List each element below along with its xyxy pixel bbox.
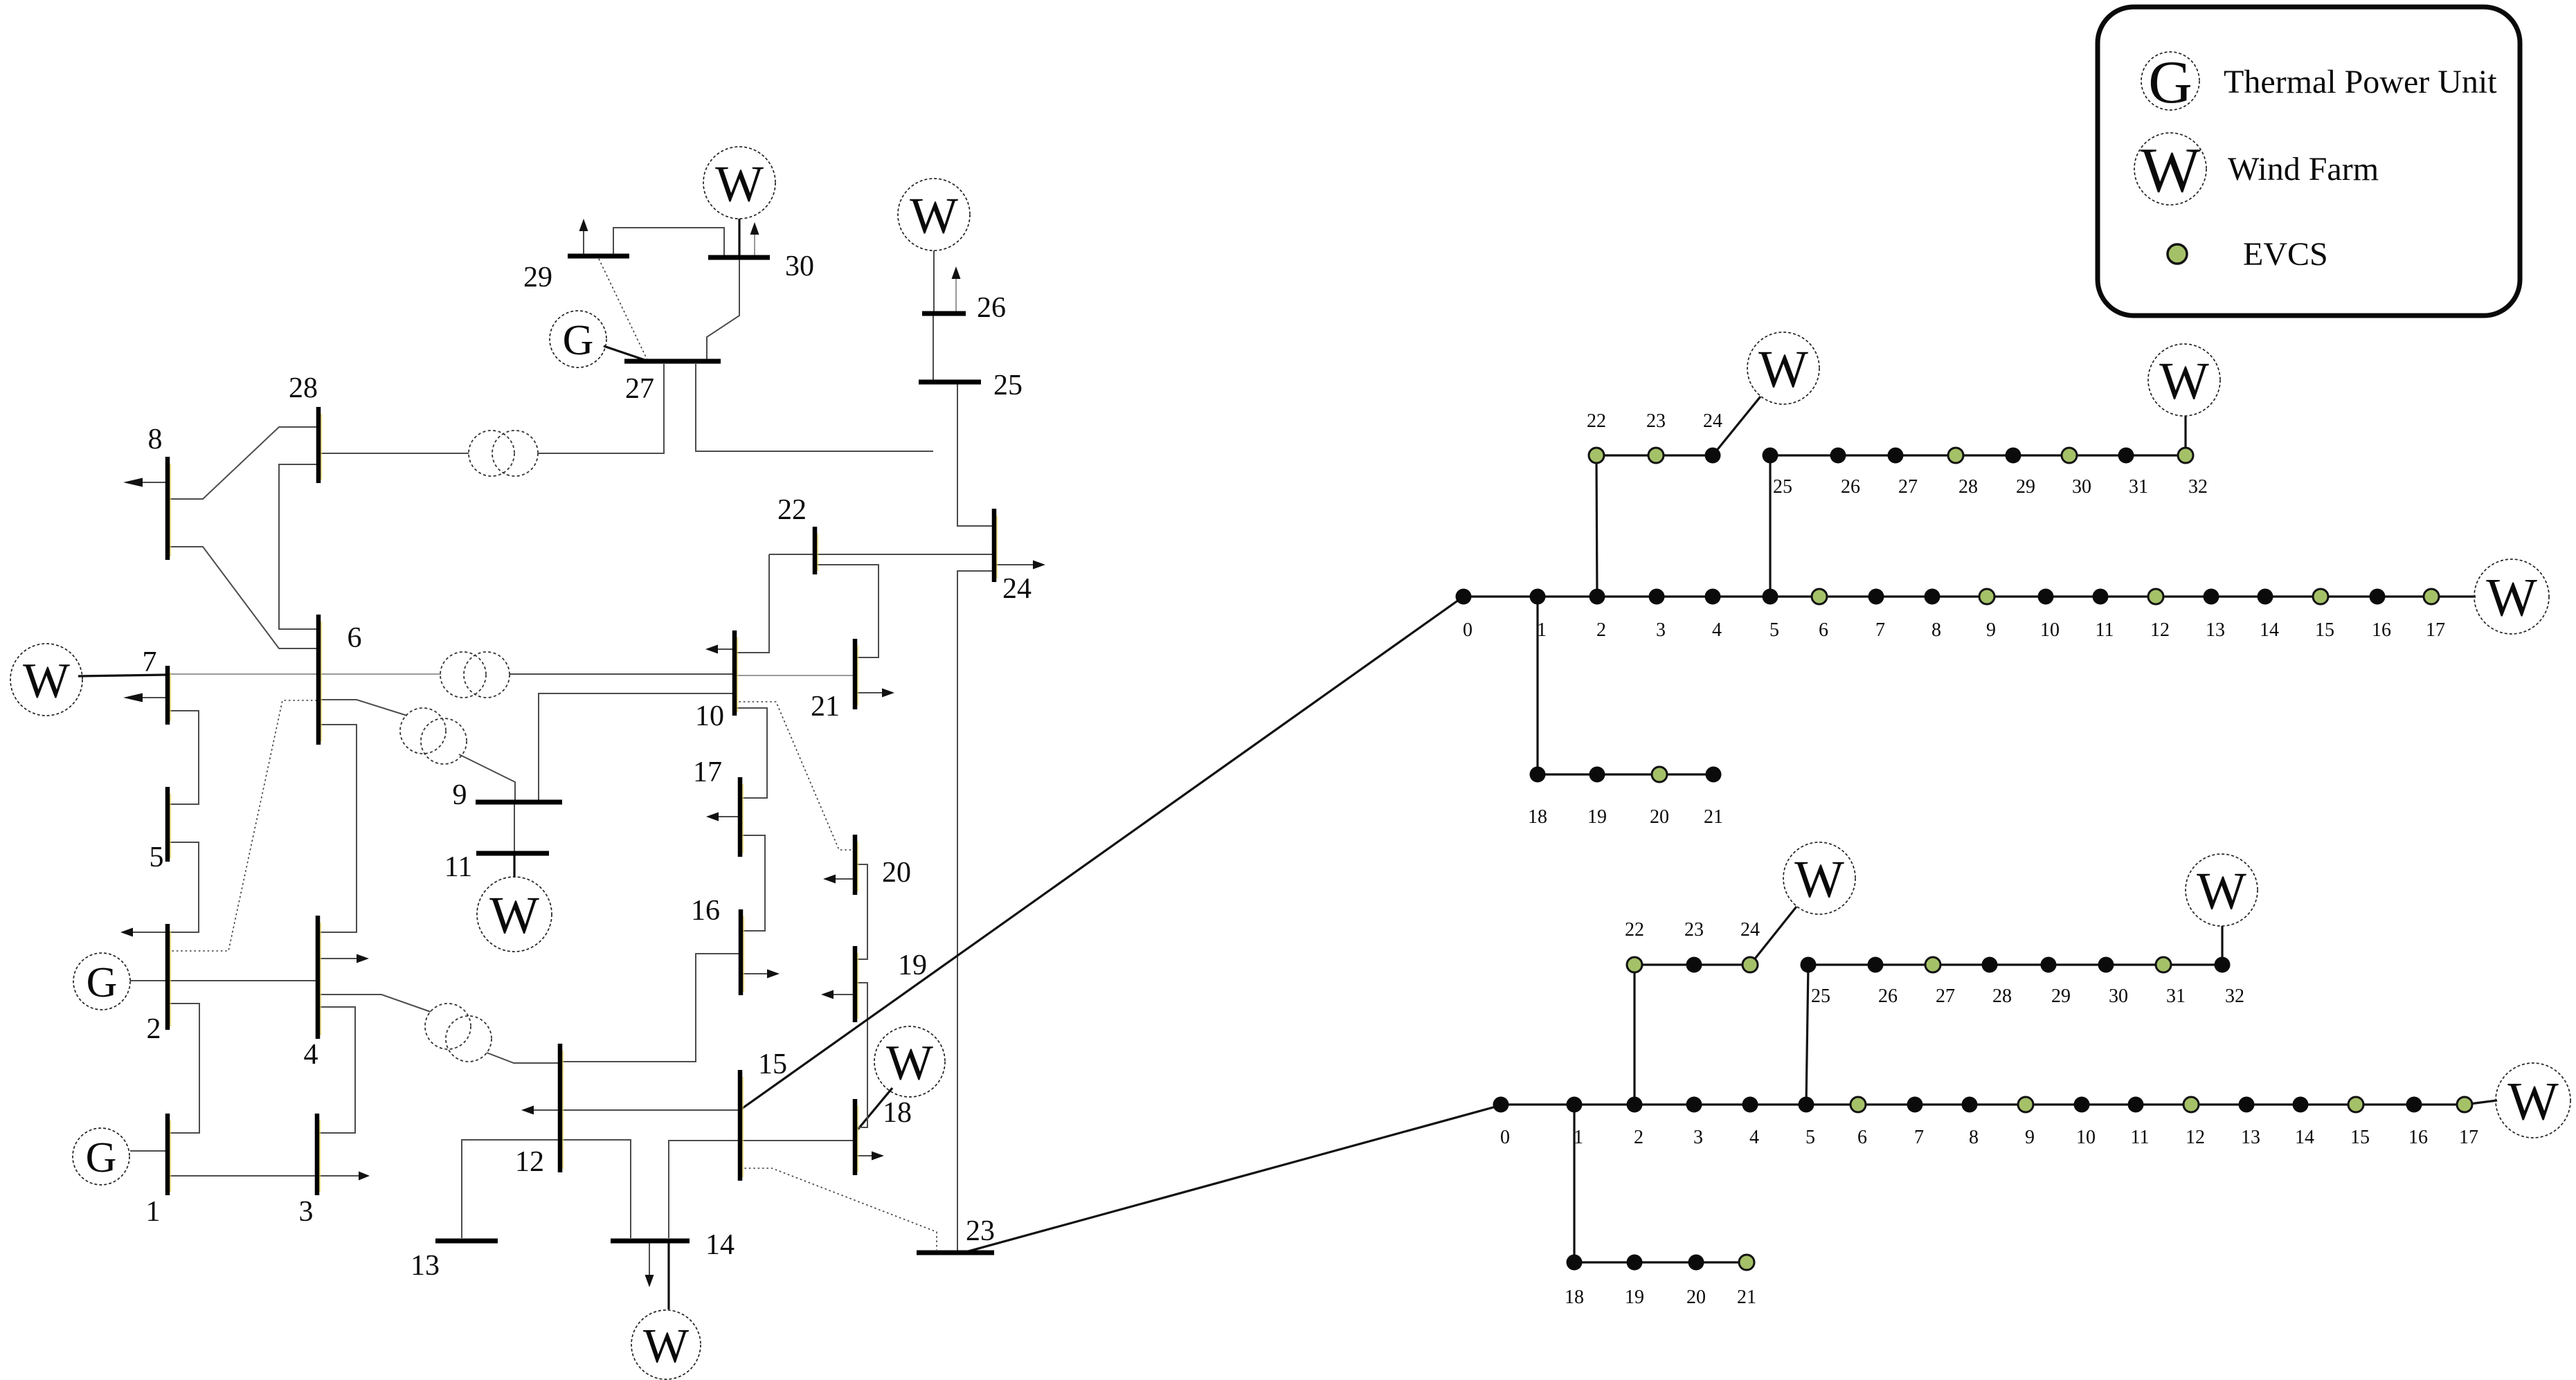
- wire 6-28: [279, 464, 318, 629]
- lower 33-node feeder: wind farm W at end of main line: [2496, 1063, 2570, 1138]
- svg-text:29: 29: [523, 262, 552, 293]
- svg-text:4: 4: [1712, 619, 1722, 641]
- svg-text:12: 12: [2150, 619, 2170, 641]
- wire 27-29: [599, 259, 647, 360]
- svg-text:2: 2: [147, 1013, 161, 1045]
- wire 10-21: [735, 675, 855, 676]
- upper 33-node feeder: node 27: [1888, 448, 1904, 464]
- wire transformer T2 to 9: [459, 754, 515, 800]
- bus 15: [740, 1070, 743, 1181]
- upper 33-node feeder: node 31: [2118, 448, 2134, 464]
- svg-text:32: 32: [2225, 986, 2244, 1007]
- bus 16: [741, 909, 744, 995]
- svg-text:14: 14: [2260, 619, 2279, 641]
- lower 33-node feeder: node 5: [1799, 1097, 1814, 1113]
- lower 33-node feeder: wire node 5 to node 25: [1806, 965, 1808, 1105]
- upper 33-node feeder: node 6 (EVCS): [1812, 589, 1827, 604]
- lower 33-node feeder: node 8: [1962, 1097, 1978, 1113]
- wire 14-15: [669, 1141, 740, 1238]
- wire 12-16: [560, 954, 741, 1062]
- bus 13: [435, 1239, 498, 1244]
- lower 33-node feeder: node 24 (EVCS): [1742, 957, 1758, 972]
- svg-text:16: 16: [2372, 619, 2391, 641]
- wire 6-7 and 6 to transformer: [168, 673, 441, 675]
- svg-text:4: 4: [1749, 1127, 1759, 1148]
- svg-text:3: 3: [1693, 1127, 1703, 1148]
- wind farm W at bus 14: [631, 1310, 701, 1379]
- transformer 6-9: [400, 708, 467, 764]
- svg-text:21: 21: [1737, 1287, 1756, 1308]
- svg-text:W: W: [2197, 862, 2246, 920]
- bus 18: [855, 1099, 858, 1175]
- svg-text:14: 14: [2295, 1127, 2314, 1148]
- svg-text:W: W: [1758, 341, 1808, 399]
- upper 33-node feeder: node 28 (EVCS): [1948, 448, 1963, 463]
- bus 2: [168, 924, 170, 1030]
- svg-text:20: 20: [882, 857, 911, 889]
- bus 25: [919, 380, 981, 385]
- wire 29-30: [613, 228, 724, 257]
- svg-text:G: G: [2148, 49, 2192, 116]
- lower 33-node feeder: wire node 2 to node 22: [1633, 965, 1635, 1105]
- svg-text:6: 6: [1857, 1127, 1867, 1148]
- lower 33-node feeder: node 16: [2406, 1097, 2422, 1113]
- upper 33-node feeder: wire node 1 to node 18: [1536, 597, 1538, 774]
- load arrow bus 2: [120, 928, 168, 937]
- upper 33-node feeder: node 1: [1530, 589, 1546, 605]
- wind farm W at bus 26: [898, 179, 970, 251]
- upper 33-node feeder: branch line 22-24: [1596, 454, 1713, 456]
- upper 33-node feeder: wire node 5 to node 25: [1769, 455, 1771, 597]
- wire 25-27: [696, 364, 933, 451]
- lower 33-node feeder: node 23: [1686, 957, 1702, 973]
- bus 5: [168, 787, 170, 862]
- wire W to bus 11: [513, 853, 515, 878]
- svg-text:30: 30: [785, 251, 814, 282]
- svg-text:23: 23: [1684, 919, 1704, 941]
- lower 33-node feeder: node 1: [1567, 1097, 1583, 1113]
- svg-text:27: 27: [625, 373, 654, 405]
- svg-text:28: 28: [1992, 986, 2012, 1007]
- bus 1: [168, 1114, 170, 1195]
- wire 22-24: [769, 554, 994, 555]
- transformer 28-27: [469, 430, 538, 476]
- svg-text:13: 13: [2241, 1127, 2260, 1148]
- upper 33-node feeder: node 22 (EVCS): [1589, 448, 1604, 463]
- wire G to bus 2 and wire 2-4: [130, 980, 318, 981]
- load arrow bus 18: [855, 1152, 884, 1161]
- upper 33-node feeder: wire node 17 to wind farm: [2431, 595, 2476, 597]
- svg-text:11: 11: [2131, 1127, 2150, 1148]
- bus 10: [735, 630, 737, 716]
- lower 33-node feeder: branch line 25-32: [1808, 963, 2222, 965]
- lower 33-node feeder: node 31 (EVCS): [2156, 957, 2171, 972]
- svg-text:13: 13: [2206, 619, 2225, 641]
- upper 33-node feeder: wire node 2 to node 22: [1596, 455, 1597, 597]
- svg-text:W: W: [2486, 568, 2537, 628]
- svg-text:17: 17: [2426, 619, 2445, 641]
- svg-text:9: 9: [2025, 1127, 2035, 1148]
- upper 33-node feeder: node 16: [2370, 589, 2386, 605]
- wire 3-4: [317, 1007, 355, 1133]
- wire 4-6: [318, 725, 357, 932]
- upper 33-node feeder: node 29: [2006, 448, 2021, 464]
- svg-text:29: 29: [2051, 986, 2071, 1007]
- wire 4 to transformer: [318, 995, 431, 1012]
- svg-text:19: 19: [1587, 806, 1607, 828]
- upper 33-node feeder: node 8: [1925, 589, 1940, 605]
- svg-text:G: G: [563, 317, 594, 364]
- svg-text:25: 25: [1773, 476, 1792, 498]
- wire transformer to 27: [538, 364, 664, 453]
- svg-text:20: 20: [1686, 1287, 1706, 1308]
- wire W to bus 14: [667, 1241, 669, 1309]
- load arrow bus 10: [705, 645, 735, 654]
- svg-text:21: 21: [811, 691, 840, 723]
- lower 33-node feeder: main line: [1501, 1103, 2465, 1105]
- svg-text:26: 26: [977, 292, 1006, 324]
- lower 33-node feeder: node 27 (EVCS): [1925, 957, 1940, 972]
- bus 11: [476, 851, 549, 856]
- svg-text:5: 5: [1805, 1127, 1815, 1148]
- svg-text:12: 12: [515, 1146, 544, 1178]
- wire 10-17: [735, 708, 767, 798]
- wire 27-30: [707, 257, 739, 361]
- generator G at bus 27: [550, 311, 606, 367]
- lower 33-node feeder: wire node 24 to wind farm: [1750, 907, 1796, 965]
- lower 33-node feeder: node 19: [1627, 1255, 1643, 1271]
- wire 12-15 with load arrow bus 12: [521, 1106, 740, 1115]
- load arrow bus 16: [741, 970, 780, 979]
- svg-text:9: 9: [1986, 619, 1996, 641]
- wire 16-17: [740, 835, 765, 931]
- bus 26: [922, 311, 966, 316]
- lower 33-node feeder: wire node 32 to wind farm: [2221, 926, 2223, 965]
- wire G to bus 1: [130, 1150, 168, 1152]
- svg-text:2: 2: [1634, 1127, 1643, 1148]
- legend symbol: thermal power unit G: [2141, 49, 2199, 116]
- svg-text:18: 18: [1565, 1287, 1584, 1308]
- lower 33-node feeder: node 14: [2293, 1097, 2309, 1113]
- legend symbol: EVCS node: [2168, 244, 2187, 264]
- upper 33-node feeder: node 25: [1763, 448, 1778, 464]
- svg-text:15: 15: [2315, 619, 2334, 641]
- upper 33-node feeder: wind farm W above node 32: [2148, 344, 2220, 416]
- transformer 6-10: [440, 652, 510, 698]
- legend symbol: wind farm W: [2134, 133, 2206, 206]
- wind farm W at bus 7: [10, 644, 82, 716]
- svg-text:17: 17: [693, 756, 722, 788]
- svg-text:8: 8: [1931, 619, 1941, 641]
- lower 33-node feeder: wind farm W above node 32: [2186, 854, 2258, 926]
- svg-text:31: 31: [2129, 476, 2148, 498]
- transformer 4-12: [425, 1004, 492, 1062]
- lower 33-node feeder: node 17 (EVCS): [2457, 1097, 2472, 1112]
- bus 12: [560, 1044, 563, 1172]
- svg-text:Wind Farm: Wind Farm: [2228, 151, 2379, 188]
- lower 33-node feeder: node 4: [1742, 1097, 1758, 1113]
- bus 3: [317, 1114, 320, 1195]
- svg-text:12: 12: [2186, 1127, 2205, 1148]
- svg-text:1: 1: [1537, 619, 1547, 641]
- wire 9-11: [514, 802, 515, 853]
- lower 33-node feeder: node 15 (EVCS): [2348, 1097, 2363, 1112]
- svg-text:14: 14: [705, 1229, 735, 1261]
- svg-text:G: G: [86, 1134, 117, 1181]
- svg-text:21: 21: [1704, 806, 1723, 828]
- upper 33-node feeder: node 11: [2093, 589, 2109, 605]
- wire 19-20: [855, 864, 867, 959]
- wire 28 to transformer: [318, 453, 469, 454]
- svg-text:W: W: [23, 653, 70, 709]
- upper 33-node feeder: node 7: [1868, 589, 1884, 605]
- bus 24: [994, 509, 997, 582]
- svg-text:11: 11: [2096, 619, 2114, 641]
- bus 17: [740, 777, 743, 857]
- svg-text:22: 22: [1625, 919, 1644, 941]
- svg-text:13: 13: [411, 1250, 440, 1282]
- upper 33-node feeder: wind farm W at end of main line: [2474, 559, 2549, 634]
- wire 8-28: [168, 427, 318, 499]
- svg-text:19: 19: [1625, 1287, 1644, 1308]
- wire 24-25: [957, 382, 992, 526]
- load arrow bus 8: [123, 478, 168, 487]
- wire 6 to transformer T2: [318, 700, 407, 716]
- lower 33-node feeder: node 21 (EVCS): [1739, 1255, 1754, 1270]
- load arrow bus 19: [821, 990, 855, 999]
- svg-text:W: W: [2507, 1071, 2559, 1132]
- load arrow bus 26: [952, 266, 961, 314]
- svg-text:10: 10: [2076, 1127, 2096, 1148]
- svg-text:W: W: [1794, 851, 1844, 909]
- upper 33-node feeder: node 4: [1705, 589, 1721, 605]
- wire 10-20: [735, 702, 855, 850]
- svg-text:26: 26: [1878, 986, 1898, 1007]
- load arrow bus 4: [318, 954, 369, 963]
- svg-text:10: 10: [2040, 619, 2060, 641]
- upper 33-node feeder: node 9 (EVCS): [1979, 589, 1994, 604]
- wire 6-8: [168, 547, 318, 648]
- legend box: [2098, 7, 2520, 316]
- svg-text:7: 7: [143, 646, 157, 678]
- bus 9: [476, 800, 562, 805]
- connector line bus 23 to lower feeder node 0: [958, 1105, 1501, 1254]
- wire 15-18: [740, 1140, 855, 1141]
- lower 33-node feeder: node 25: [1801, 957, 1817, 973]
- lower 33-node feeder: node 26: [1868, 957, 1884, 973]
- bus 21: [855, 639, 858, 709]
- load arrow bus 20: [823, 875, 855, 884]
- svg-text:3: 3: [299, 1196, 314, 1228]
- lower 33-node feeder: node 3: [1686, 1097, 1702, 1113]
- upper 33-node feeder: node 21: [1706, 767, 1722, 783]
- svg-text:7: 7: [1875, 619, 1885, 641]
- svg-text:11: 11: [444, 851, 472, 883]
- upper 33-node feeder: node 10: [2038, 589, 2054, 605]
- upper 33-node feeder: node 0: [1456, 589, 1472, 605]
- wire transformer to 12: [487, 1053, 560, 1063]
- generator G at bus 1: [73, 1128, 129, 1185]
- load arrow bus 14: [645, 1241, 654, 1287]
- wire W to bus 26: [933, 251, 935, 314]
- lower 33-node feeder: sub line 18-21: [1574, 1261, 1747, 1263]
- wire W to bus 30: [738, 219, 740, 257]
- svg-text:29: 29: [2016, 476, 2035, 498]
- wire W to bus 7: [78, 675, 168, 676]
- load arrow bus 24: [994, 561, 1045, 570]
- svg-text:25: 25: [993, 370, 1023, 401]
- lower 33-node feeder: node 6 (EVCS): [1850, 1097, 1866, 1112]
- svg-text:15: 15: [758, 1048, 787, 1080]
- upper 33-node feeder: main line: [1463, 595, 2431, 597]
- upper 33-node feeder: node 14: [2258, 589, 2273, 605]
- svg-text:5: 5: [1769, 619, 1779, 641]
- load arrow bus 29: [579, 219, 588, 256]
- svg-text:1: 1: [1574, 1127, 1583, 1148]
- upper 33-node feeder: wire node 24 to wind farm: [1713, 397, 1760, 455]
- svg-text:16: 16: [2408, 1127, 2428, 1148]
- wire 2-6: [168, 700, 318, 951]
- svg-text:9: 9: [453, 779, 467, 811]
- svg-text:1: 1: [146, 1196, 161, 1228]
- svg-text:W: W: [643, 1320, 689, 1373]
- svg-text:W: W: [886, 1035, 933, 1091]
- svg-text:4: 4: [304, 1039, 318, 1071]
- upper 33-node feeder: node 32 (EVCS): [2178, 448, 2193, 463]
- lower 33-node feeder: node 9 (EVCS): [2018, 1097, 2033, 1112]
- upper 33-node feeder: node 30 (EVCS): [2062, 448, 2077, 463]
- load arrow bus 21: [855, 689, 894, 698]
- wire 18-19: [855, 983, 867, 1127]
- wire 2-5: [168, 842, 199, 932]
- upper 33-node feeder: node 24: [1705, 448, 1721, 464]
- wind farm W at bus 11: [477, 877, 552, 952]
- svg-text:7: 7: [1914, 1127, 1924, 1148]
- bus 20: [855, 835, 858, 895]
- upper 33-node feeder: node 12 (EVCS): [2148, 589, 2163, 604]
- wire 9-10: [539, 693, 735, 800]
- svg-text:25: 25: [1811, 986, 1830, 1007]
- wind farm W at bus 30: [703, 147, 775, 219]
- svg-text:6: 6: [348, 622, 362, 654]
- bus 19: [855, 946, 858, 1022]
- wire 25-26: [933, 314, 934, 382]
- lower 33-node feeder: node 28: [1982, 957, 1998, 973]
- wire 10-22: [735, 554, 769, 653]
- bus 29: [568, 254, 629, 259]
- upper 33-node feeder: wind farm W near node 24: [1747, 332, 1819, 404]
- bus 23: [917, 1251, 994, 1255]
- svg-text:0: 0: [1500, 1127, 1510, 1148]
- svg-text:W: W: [910, 188, 958, 244]
- svg-text:EVCS: EVCS: [2243, 236, 2328, 273]
- wire transformer to 10: [510, 673, 735, 675]
- bus 8: [168, 457, 170, 560]
- upper 33-node feeder: node 19: [1589, 767, 1605, 783]
- svg-text:19: 19: [898, 950, 927, 981]
- lower 33-node feeder: node 0: [1493, 1097, 1509, 1113]
- svg-text:16: 16: [691, 895, 720, 927]
- svg-text:Thermal Power Unit: Thermal Power Unit: [2224, 64, 2497, 100]
- wire 12-13: [462, 1140, 560, 1238]
- svg-text:3: 3: [1656, 619, 1666, 641]
- upper 33-node feeder: node 23 (EVCS): [1648, 448, 1664, 463]
- svg-text:W: W: [489, 887, 539, 945]
- svg-text:23: 23: [966, 1215, 995, 1247]
- svg-text:27: 27: [1898, 476, 1918, 498]
- lower 33-node feeder: node 30: [2098, 957, 2114, 973]
- svg-text:18: 18: [883, 1097, 912, 1129]
- upper 33-node feeder: node 13: [2204, 589, 2219, 605]
- svg-text:5: 5: [150, 842, 164, 873]
- lower 33-node feeder: node 13: [2239, 1097, 2255, 1113]
- lower 33-node feeder: node 12 (EVCS): [2183, 1097, 2199, 1112]
- svg-text:17: 17: [2459, 1127, 2478, 1148]
- bus 14: [611, 1239, 690, 1244]
- wire 1-3 with load arrow bus 3: [168, 1172, 370, 1181]
- lower 33-node feeder: node 10: [2074, 1097, 2090, 1113]
- wire 21-22: [815, 565, 879, 657]
- load arrow bus 7: [123, 693, 168, 702]
- svg-text:W: W: [2159, 352, 2209, 410]
- upper 33-node feeder: node 15 (EVCS): [2313, 589, 2328, 604]
- upper 33-node feeder: node 5: [1763, 589, 1778, 605]
- generator G at bus 2: [73, 953, 130, 1010]
- svg-text:G: G: [87, 959, 118, 1006]
- upper 33-node feeder: branch line 25-32: [1770, 454, 2186, 456]
- svg-text:30: 30: [2109, 986, 2128, 1007]
- bus 27: [624, 359, 721, 364]
- bus 6: [318, 615, 321, 745]
- lower 33-node feeder: node 32: [2215, 957, 2231, 973]
- svg-text:24: 24: [1740, 919, 1760, 941]
- bus 4: [318, 916, 321, 1039]
- lower 33-node feeder: node 11: [2128, 1097, 2144, 1113]
- lower 33-node feeder: wire node 17 to wind farm: [2465, 1100, 2497, 1105]
- lower 33-node feeder: node 7: [1907, 1097, 1923, 1113]
- svg-text:2: 2: [1596, 619, 1606, 641]
- wire 5-7: [168, 711, 199, 804]
- svg-text:24: 24: [1002, 573, 1032, 605]
- lower 33-node feeder: node 29: [2041, 957, 2057, 973]
- svg-text:6: 6: [1819, 619, 1828, 641]
- lower 33-node feeder: node 2: [1627, 1097, 1643, 1113]
- lower 33-node feeder: node 20: [1688, 1255, 1704, 1271]
- svg-text:0: 0: [1463, 619, 1472, 641]
- upper 33-node feeder: sub line 18-21: [1538, 773, 1713, 775]
- wire 15-23: [740, 1168, 937, 1250]
- load arrow bus 30: [750, 222, 759, 257]
- lower 33-node feeder: node 18: [1567, 1255, 1583, 1271]
- upper 33-node feeder: wire node 32 to wind farm: [2184, 416, 2186, 455]
- svg-text:23: 23: [1646, 410, 1666, 432]
- svg-text:22: 22: [777, 494, 807, 526]
- svg-text:10: 10: [695, 700, 724, 732]
- svg-text:W: W: [2141, 135, 2201, 206]
- svg-text:8: 8: [1969, 1127, 1979, 1148]
- svg-text:28: 28: [289, 372, 318, 404]
- svg-text:24: 24: [1703, 410, 1722, 432]
- svg-text:22: 22: [1587, 410, 1606, 432]
- wire W to bus 18: [858, 1088, 892, 1129]
- lower 33-node feeder: wind farm W near node 24: [1783, 842, 1855, 914]
- upper 33-node feeder: node 18: [1530, 767, 1546, 783]
- bus 28: [318, 407, 321, 483]
- upper 33-node feeder: node 3: [1649, 589, 1665, 605]
- svg-text:26: 26: [1841, 476, 1860, 498]
- svg-text:28: 28: [1958, 476, 1978, 498]
- lower 33-node feeder: wire node 1 to node 18: [1573, 1105, 1575, 1262]
